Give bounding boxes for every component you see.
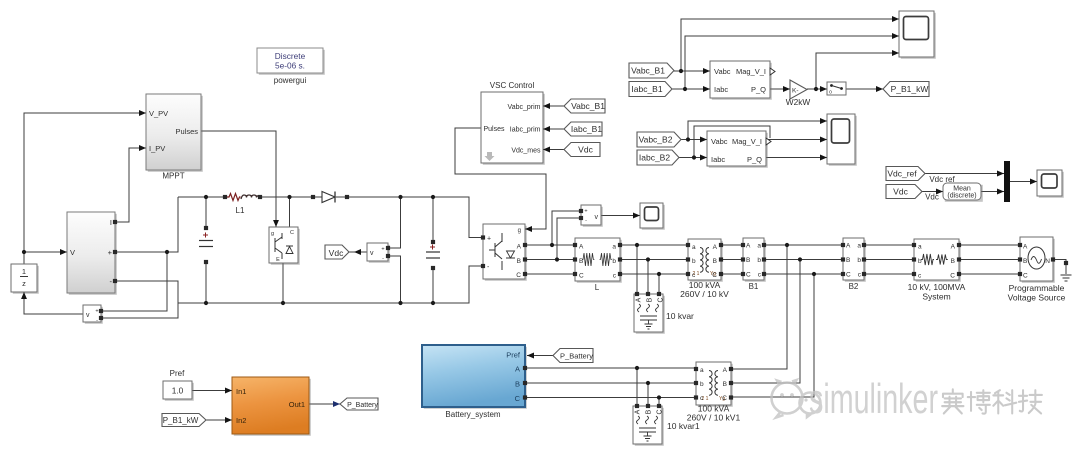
- svg-text:B: B: [579, 258, 583, 265]
- svg-text:B1: B1: [749, 282, 759, 291]
- svg-text:b: b: [857, 257, 861, 264]
- svg-text:A: A: [1023, 244, 1028, 251]
- svg-text:Vdc: Vdc: [893, 187, 908, 197]
- svg-text:Iabc: Iabc: [711, 155, 725, 164]
- svg-text:E: E: [276, 257, 280, 263]
- svg-text:Mean: Mean: [953, 186, 971, 193]
- svg-text:+: +: [584, 209, 587, 215]
- svg-text:b: b: [918, 258, 922, 265]
- svg-text:B: B: [1023, 258, 1027, 265]
- svg-text:C: C: [515, 394, 521, 403]
- svg-text:C: C: [746, 272, 751, 279]
- svg-text:A: A: [723, 367, 728, 374]
- svg-text:L1: L1: [236, 206, 245, 215]
- svg-text:B: B: [515, 380, 520, 389]
- svg-text:A: A: [636, 297, 643, 302]
- svg-text:Battery_system: Battery_system: [445, 410, 500, 419]
- svg-text:B: B: [713, 258, 717, 265]
- svg-text:B: B: [517, 258, 521, 265]
- svg-text:Vdc_mes: Vdc_mes: [511, 148, 541, 155]
- svg-text:10 kvar1: 10 kvar1: [667, 421, 700, 431]
- svg-text:260V / 10 kV1: 260V / 10 kV1: [687, 413, 741, 423]
- svg-text:Vabc_prim: Vabc_prim: [508, 104, 541, 111]
- svg-text:v: v: [370, 250, 374, 257]
- svg-text:P_Q: P_Q: [751, 85, 766, 94]
- svg-text:V_PV: V_PV: [149, 109, 168, 118]
- svg-text:+: +: [108, 248, 113, 257]
- svg-text:B: B: [746, 257, 750, 264]
- svg-text:N: N: [1045, 258, 1050, 265]
- svg-text:P_Battery: P_Battery: [560, 352, 593, 361]
- svg-text:P_Battery: P_Battery: [347, 402, 378, 409]
- svg-text:b: b: [700, 381, 704, 388]
- svg-text:Vdc: Vdc: [329, 248, 344, 258]
- svg-text:C: C: [712, 272, 717, 279]
- svg-text:powergui: powergui: [274, 76, 307, 85]
- svg-text:C: C: [846, 272, 851, 279]
- svg-text:A: A: [517, 244, 522, 251]
- svg-text:Discrete: Discrete: [275, 51, 306, 61]
- svg-text:B: B: [723, 381, 727, 388]
- svg-text:P_Q: P_Q: [747, 155, 762, 164]
- svg-text:C: C: [657, 409, 664, 414]
- svg-text:Pulses: Pulses: [484, 126, 506, 133]
- svg-text:Vabc_B1: Vabc_B1: [571, 101, 605, 111]
- svg-text:v: v: [595, 214, 599, 221]
- svg-text:+: +: [487, 236, 491, 243]
- svg-text:P_B1_kW: P_B1_kW: [891, 84, 929, 94]
- svg-text:System: System: [922, 292, 950, 302]
- svg-text:b: b: [612, 258, 616, 265]
- svg-text:C: C: [579, 273, 584, 280]
- svg-text:b: b: [692, 258, 696, 265]
- svg-text:-: -: [585, 218, 587, 224]
- svg-text:A: A: [635, 409, 642, 414]
- svg-text:Vabc_B2: Vabc_B2: [639, 135, 673, 145]
- svg-text:W2kW: W2kW: [786, 97, 811, 107]
- svg-text:Vdc ref: Vdc ref: [929, 175, 955, 184]
- svg-text:C: C: [290, 230, 294, 236]
- svg-text:o: o: [829, 90, 832, 96]
- svg-text:+: +: [381, 247, 384, 253]
- svg-text:In1: In1: [236, 387, 246, 396]
- svg-text:-: -: [382, 256, 384, 262]
- svg-text:b: b: [757, 257, 761, 264]
- svg-text:B2: B2: [849, 282, 859, 291]
- svg-text:Pref: Pref: [506, 351, 521, 360]
- svg-text:VSC Control: VSC Control: [490, 81, 535, 90]
- svg-text:B: B: [951, 258, 955, 265]
- svg-text:Vabc_B1: Vabc_B1: [631, 66, 665, 76]
- svg-text:+: +: [95, 309, 98, 315]
- svg-text:MPPT: MPPT: [162, 172, 184, 181]
- svg-text:a: a: [757, 243, 761, 250]
- svg-text:Mag_V_I: Mag_V_I: [736, 67, 766, 76]
- svg-text:g: g: [271, 231, 274, 237]
- svg-text:Mag_V_I: Mag_V_I: [732, 137, 762, 146]
- svg-text:v: v: [86, 312, 90, 319]
- svg-text:B: B: [646, 409, 653, 414]
- svg-text:A: A: [746, 243, 751, 250]
- svg-text:C: C: [1023, 273, 1028, 280]
- svg-text:C: C: [516, 272, 521, 279]
- svg-text:-: -: [96, 318, 98, 324]
- svg-text:Pref: Pref: [170, 369, 185, 378]
- svg-text:a: a: [918, 244, 922, 251]
- svg-text:B: B: [647, 297, 654, 302]
- svg-text:Iabc_B1: Iabc_B1: [571, 124, 602, 134]
- svg-text:a: a: [700, 367, 704, 374]
- svg-text:K-: K-: [792, 88, 799, 95]
- svg-text:(discrete): (discrete): [947, 193, 976, 200]
- svg-text:Vabc: Vabc: [711, 137, 728, 146]
- svg-text:A: A: [579, 244, 584, 251]
- svg-text:Vdc: Vdc: [925, 193, 939, 202]
- svg-text:V: V: [70, 248, 75, 257]
- svg-text:Iabc_B1: Iabc_B1: [631, 84, 662, 94]
- svg-text:C: C: [722, 395, 727, 402]
- svg-text:B: B: [846, 257, 850, 264]
- svg-text:C: C: [950, 273, 955, 280]
- svg-text:I_PV: I_PV: [149, 144, 165, 153]
- svg-text:I: I: [110, 218, 112, 227]
- svg-text:Iabc_prim: Iabc_prim: [510, 127, 541, 134]
- svg-text:260V / 10 kV: 260V / 10 kV: [680, 289, 729, 299]
- svg-text:In2: In2: [236, 416, 246, 425]
- svg-text:a: a: [692, 244, 696, 251]
- svg-text:a: a: [612, 244, 616, 251]
- svg-text:z: z: [22, 279, 26, 288]
- svg-text:simulinker: simulinker: [809, 375, 938, 422]
- svg-text:Pulses: Pulses: [175, 127, 198, 136]
- svg-text:a: a: [857, 243, 861, 250]
- svg-text:1.0: 1.0: [172, 386, 184, 396]
- svg-text:Iabc: Iabc: [714, 85, 728, 94]
- svg-text:10 kvar: 10 kvar: [666, 311, 694, 321]
- svg-text:Out1: Out1: [289, 400, 305, 409]
- svg-text:10 kV, 100MVA: 10 kV, 100MVA: [908, 282, 966, 292]
- svg-text:A: A: [846, 243, 851, 250]
- svg-text:1: 1: [22, 267, 26, 276]
- svg-text:Voltage Source: Voltage Source: [1008, 293, 1066, 303]
- svg-text:A: A: [515, 365, 520, 374]
- svg-text:Iabc_B2: Iabc_B2: [639, 153, 670, 163]
- svg-text:Programmable: Programmable: [1009, 283, 1065, 293]
- svg-text:g: g: [518, 228, 521, 234]
- svg-text:L: L: [595, 283, 600, 292]
- svg-text:5e-06 s.: 5e-06 s.: [275, 61, 305, 71]
- svg-text:Vdc: Vdc: [578, 145, 593, 155]
- svg-text:A: A: [951, 244, 956, 251]
- svg-text:P_B1_kW: P_B1_kW: [163, 416, 199, 425]
- svg-text:A: A: [713, 244, 718, 251]
- svg-text:Vdc_ref: Vdc_ref: [887, 169, 917, 179]
- svg-text:Vabc: Vabc: [714, 67, 731, 76]
- svg-text:C: C: [658, 297, 665, 302]
